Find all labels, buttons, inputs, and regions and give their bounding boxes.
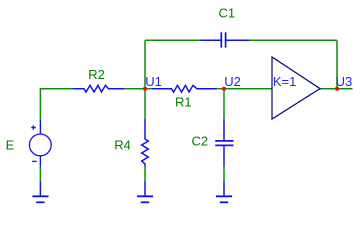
wire E top horizontal <box>40 89 72 120</box>
wire E to ground <box>39 167 41 182</box>
wire U2 to op-amp <box>224 88 272 90</box>
wire top right segment <box>250 39 337 41</box>
resistor R1 <box>152 85 217 92</box>
wire top left segment <box>145 39 200 41</box>
wire U1 left/right across node <box>124 88 152 90</box>
node U3 <box>335 87 339 91</box>
wire C2 to ground <box>223 167 225 182</box>
wire op-amp output to U3 stub <box>320 88 353 90</box>
svg-text:R1: R1 <box>175 94 192 109</box>
svg-text:U2: U2 <box>224 74 241 89</box>
svg-text:C1: C1 <box>219 5 236 20</box>
svg-text:C2: C2 <box>192 133 209 148</box>
resistor R2 <box>72 85 124 92</box>
op-amp U (K=1) <box>272 57 320 119</box>
wire U2 down to C2 <box>223 89 225 119</box>
wire U1 down to R4 <box>144 89 146 119</box>
svg-text:U1: U1 <box>145 74 162 89</box>
wire U1 vertical up <box>144 40 146 88</box>
wire U3 vertical <box>336 40 338 88</box>
ground (C2) <box>216 181 232 202</box>
ground (R4) <box>137 181 153 202</box>
node U1 <box>143 87 147 91</box>
svg-text:R4: R4 <box>114 137 131 152</box>
node U2 <box>222 87 226 91</box>
resistor R4 <box>142 119 149 167</box>
wire R1 to U2 <box>217 88 225 90</box>
wire R4 to ground <box>144 167 146 182</box>
capacitor C1 <box>200 32 250 47</box>
svg-text:U3: U3 <box>336 74 353 89</box>
capacitor C2 <box>215 119 233 167</box>
svg-text:K=1: K=1 <box>273 74 297 89</box>
svg-text:E: E <box>6 137 15 152</box>
voltage source E <box>29 120 51 168</box>
ground (E) <box>32 181 48 202</box>
svg-text:R2: R2 <box>88 67 105 82</box>
